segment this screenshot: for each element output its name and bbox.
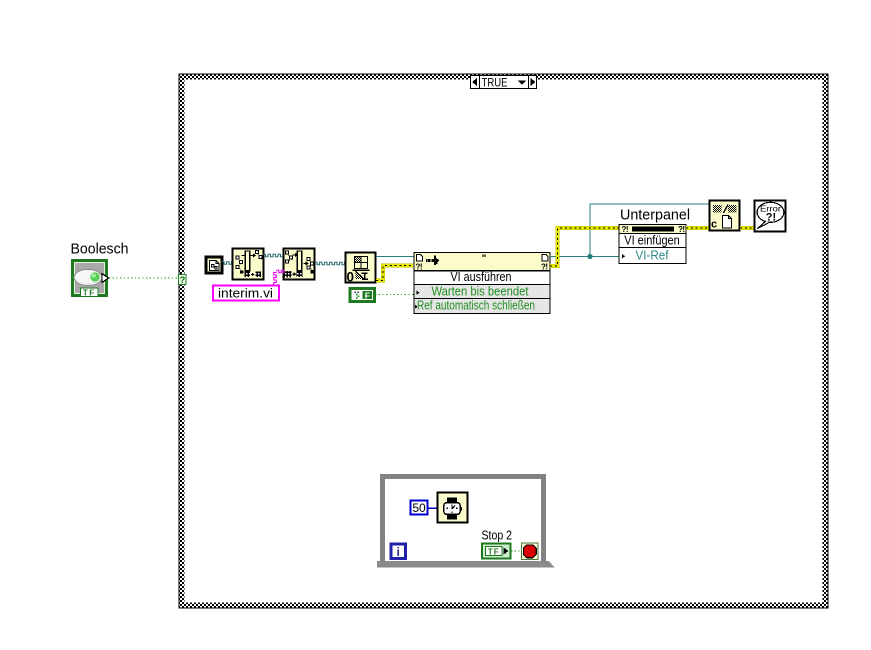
boolean constant False [350, 289, 375, 302]
string constant interim.vi [213, 285, 279, 300]
svg-text:VI ausführen: VI ausführen [451, 269, 512, 284]
svg-text:": " [482, 254, 487, 265]
boolean control Boolesch [73, 261, 109, 298]
loop condition terminal (stop sign) [522, 543, 539, 560]
case selector label "TRUE" [471, 76, 537, 90]
left path chain [238, 259, 242, 271]
svg-text:Boolesch: Boolesch [71, 241, 129, 258]
wire error Unterpanel to close reference [686, 226, 709, 230]
node Open VI Reference [346, 253, 376, 285]
svg-text:c: c [711, 219, 717, 231]
svg-text:?: ? [179, 275, 185, 286]
invoke node VI ausfuehren [414, 253, 550, 314]
wire strip path to build path (teal square wave) [263, 254, 285, 257]
wire string (magenta square wave) interim.vi to build path name input [274, 272, 277, 286]
header glyphs [417, 255, 423, 262]
wire error invoke node to Unterpanel property node [550, 228, 619, 266]
wire boolean (dotted green) control to ? terminal [109, 277, 178, 279]
svg-text:interim.vi: interim.vi [218, 285, 273, 300]
svg-text:Unterpanel: Unterpanel [620, 207, 690, 224]
svg-text:TRUE: TRUE [482, 76, 508, 90]
iteration terminal i [391, 544, 406, 559]
boolean terminal Stop 2 (TF) [482, 544, 511, 559]
wire error close reference to error handler [740, 226, 754, 230]
wire numeric (blue) 50 to wait node [428, 507, 438, 509]
wire VI refnum vertical to close reference [590, 204, 709, 257]
right out arrow and chain [250, 254, 253, 256]
svg-text:?!: ?! [766, 212, 776, 224]
case structure border (TRUE case) [179, 74, 828, 608]
wire boolean (dotted green) Stop 2 to loop condition [511, 550, 521, 552]
svg-text:TF: TF [488, 547, 500, 556]
wire boolean (dotted green) F constant to invoke node wait input [375, 294, 414, 296]
node Build Path [284, 249, 315, 280]
svg-text:0: 0 [347, 270, 355, 285]
invoke node Unterpanel (VI einfuegen) [619, 225, 686, 264]
wire error (yellow/black dashed) open vi ref to invoke node [376, 266, 413, 281]
while loop border [377, 477, 555, 568]
svg-text:TF: TF [83, 288, 96, 297]
central path bar [245, 251, 249, 271]
path constant [206, 257, 222, 273]
svg-text:F: F [365, 290, 370, 300]
svg-text:Ref automatisch schließen: Ref automatisch schließen [417, 298, 535, 313]
svg-text:VI-Ref: VI-Ref [636, 247, 669, 262]
node Simple Error Handler [755, 201, 786, 232]
junction dot [587, 254, 592, 259]
wire path constant to strip path (teal square wave) [222, 262, 234, 265]
node Wait (ms) [438, 493, 468, 523]
node Strip Path [233, 249, 264, 280]
svg-text:?!: ?! [541, 263, 548, 272]
svg-text:50: 50 [412, 501, 426, 515]
svg-text:VI einfügen: VI einfügen [624, 233, 680, 248]
wire VI refnum (teal solid) open vi ref to invoke node [376, 256, 414, 258]
case selector terminal "?" [179, 275, 187, 287]
wire build path to open vi reference (teal square wave) [315, 262, 347, 265]
numeric constant 50 [411, 501, 428, 515]
svg-text:Warten bis beendet: Warten bis beendet [432, 284, 529, 299]
wire VI refnum (teal) invoke node to junction and VI-Ref input [550, 256, 619, 258]
svg-text:?!: ?! [416, 263, 423, 272]
svg-text:Stop 2: Stop 2 [482, 528, 513, 543]
node Close Reference [710, 201, 740, 231]
svg-text:i: i [397, 547, 400, 559]
